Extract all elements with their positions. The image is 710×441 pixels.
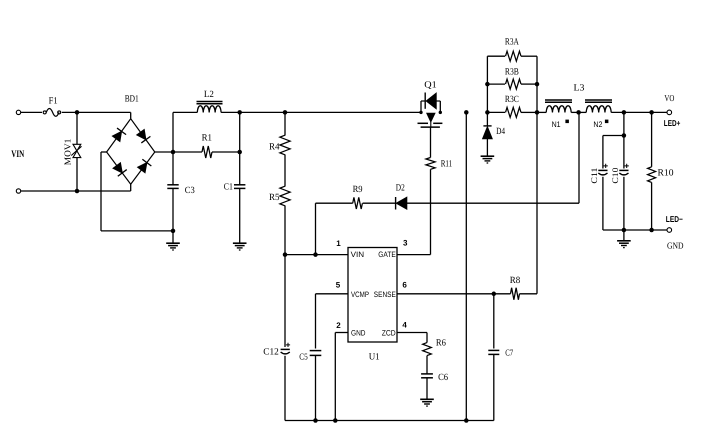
svg-text:L2: L2 — [204, 90, 214, 100]
capacitor C10 — [619, 164, 629, 175]
svg-text:BD1: BD1 — [125, 94, 139, 104]
wire — [521, 111, 537, 113]
svg-text:GATE: GATE — [378, 250, 396, 259]
diode BD1 top-left — [112, 128, 126, 141]
wire — [101, 151, 107, 153]
wire — [536, 56, 538, 294]
svg-text:C7: C7 — [505, 347, 513, 357]
wire — [221, 111, 421, 113]
svg-text:C3: C3 — [185, 186, 195, 196]
capacitor C5 — [310, 351, 322, 356]
op-amp U1 box — [348, 248, 397, 343]
wire — [172, 112, 174, 184]
node VIN terminal bottom — [16, 189, 20, 193]
wire — [397, 332, 427, 334]
resistor R11 — [426, 158, 435, 170]
junction — [485, 82, 490, 87]
svg-text:C10: C10 — [610, 168, 620, 184]
wire — [130, 112, 132, 118]
ground — [233, 243, 247, 250]
resistor R1 — [202, 146, 212, 158]
svg-text:3: 3 — [403, 239, 408, 248]
svg-text:R9: R9 — [353, 185, 363, 195]
diode BD1 top-right — [137, 130, 151, 143]
wire — [285, 420, 494, 422]
svg-text:R3C: R3C — [505, 95, 519, 105]
svg-text:6: 6 — [402, 280, 407, 289]
diode D2 — [396, 197, 407, 210]
wire — [486, 56, 488, 112]
polarity dot N2 — [605, 120, 609, 124]
ground — [481, 156, 495, 163]
wire — [284, 206, 286, 255]
wire — [430, 127, 432, 157]
svg-text:LED+: LED+ — [664, 118, 681, 128]
resistor R3A — [506, 51, 521, 61]
junction — [313, 252, 318, 257]
wire — [285, 254, 348, 256]
wire — [465, 112, 467, 420]
resistor R5 — [280, 186, 290, 206]
svg-text:C11: C11 — [589, 168, 599, 184]
wire — [363, 202, 396, 204]
wire — [284, 356, 286, 421]
svg-text:L3: L3 — [574, 83, 585, 93]
wire — [426, 378, 428, 399]
node VO terminal — [667, 110, 672, 115]
wire — [284, 255, 286, 347]
wire — [623, 136, 625, 169]
resistor R3B — [506, 79, 521, 89]
wire — [487, 83, 505, 85]
wire — [407, 202, 579, 204]
svg-text:R3A: R3A — [505, 38, 519, 48]
wire — [426, 356, 428, 374]
wire — [101, 230, 173, 232]
transistor Q1 — [418, 93, 443, 128]
capacitor C1 — [234, 185, 245, 189]
wire — [578, 112, 580, 203]
junction — [75, 110, 80, 115]
svg-text:N1: N1 — [552, 120, 561, 129]
wire — [239, 112, 241, 184]
svg-text:R3B: R3B — [505, 68, 519, 78]
svg-text:F1: F1 — [49, 96, 58, 106]
wire — [602, 136, 604, 169]
svg-text:R1: R1 — [202, 133, 213, 143]
junction — [283, 252, 288, 257]
wire — [173, 151, 202, 153]
diode BD1 bottom-left — [113, 163, 127, 176]
junction — [171, 229, 176, 234]
svg-text:R6: R6 — [436, 339, 446, 349]
wire — [76, 112, 78, 144]
svg-text:VCMP: VCMP — [351, 290, 369, 299]
capacitor C12 — [281, 343, 291, 354]
polarity dot N1 — [565, 120, 569, 124]
junction — [237, 110, 242, 115]
wire — [487, 111, 505, 113]
wire — [623, 230, 625, 241]
junction — [171, 150, 176, 155]
svg-text:MOV1: MOV1 — [63, 139, 73, 166]
wire — [486, 112, 488, 126]
wire — [487, 55, 505, 57]
ground — [420, 399, 434, 406]
wire — [623, 112, 625, 135]
junction — [237, 150, 242, 155]
wire — [316, 293, 349, 295]
junction — [464, 418, 469, 423]
wire — [21, 111, 43, 113]
wire — [62, 111, 131, 113]
junction — [649, 110, 654, 115]
node LED- terminal — [667, 228, 672, 233]
wire — [316, 202, 353, 204]
wire — [602, 177, 604, 230]
svg-text:R11: R11 — [441, 160, 453, 170]
svg-text:LED−: LED− — [666, 214, 683, 224]
resistor R10 — [648, 167, 656, 183]
wire — [130, 184, 132, 191]
wire — [315, 294, 317, 349]
wire — [430, 169, 432, 254]
svg-text:C12: C12 — [263, 347, 279, 357]
wire — [521, 83, 537, 85]
junction — [439, 111, 442, 114]
svg-text:ZCD: ZCD — [382, 328, 396, 337]
bridge rectifier BD1 — [107, 119, 155, 185]
inductor L3 winding N2 — [585, 100, 612, 112]
svg-text:5: 5 — [336, 280, 341, 289]
wire — [651, 182, 653, 230]
svg-text:N2: N2 — [593, 120, 602, 129]
wire — [284, 112, 286, 135]
wire — [486, 139, 488, 156]
svg-text:1: 1 — [336, 239, 341, 248]
wire — [173, 111, 197, 113]
junction — [333, 418, 338, 423]
svg-text:R5: R5 — [269, 193, 280, 203]
svg-text:VO: VO — [664, 93, 674, 103]
inductor L2 — [197, 102, 223, 113]
wire — [603, 135, 624, 137]
node VIN terminal top — [16, 110, 20, 114]
wire — [335, 332, 348, 334]
svg-text:VIN: VIN — [11, 149, 25, 160]
wire — [493, 294, 495, 349]
wire — [334, 333, 336, 421]
wire — [212, 151, 240, 153]
wire — [315, 355, 317, 420]
junction — [492, 292, 497, 297]
wire — [611, 111, 667, 113]
wire — [315, 203, 317, 254]
svg-text:C5: C5 — [299, 351, 308, 361]
capacitor C7 — [488, 350, 499, 354]
svg-text:D4: D4 — [496, 127, 505, 137]
wire — [284, 155, 286, 187]
diode BD1 bottom-right — [138, 159, 152, 172]
svg-text:GND: GND — [667, 241, 684, 251]
capacitor C6 — [421, 374, 433, 378]
svg-text:C6: C6 — [438, 373, 448, 383]
wire — [537, 111, 546, 113]
diode D4 — [483, 126, 493, 139]
svg-text:U1: U1 — [369, 352, 380, 362]
svg-text:SENSE: SENSE — [374, 290, 396, 299]
resistor R8 — [511, 288, 520, 300]
inductor L3 winding N1 — [545, 100, 572, 112]
junction — [535, 82, 540, 87]
junction — [485, 110, 490, 115]
wire — [426, 333, 428, 343]
junction — [622, 228, 627, 233]
wire — [397, 293, 511, 295]
capacitor C11 — [598, 164, 608, 175]
svg-text:R4: R4 — [269, 143, 280, 153]
wire — [493, 354, 495, 420]
junction — [622, 133, 627, 138]
junction — [649, 228, 654, 233]
ground — [617, 241, 631, 248]
svg-text:2: 2 — [336, 321, 341, 330]
svg-text:D2: D2 — [396, 183, 405, 193]
svg-text:R10: R10 — [658, 168, 674, 178]
svg-text:VIN: VIN — [351, 250, 365, 259]
wire — [239, 188, 241, 243]
resistor R6 — [423, 343, 432, 356]
capacitor C3 — [167, 185, 178, 189]
ground — [166, 243, 180, 250]
svg-text:GND: GND — [351, 328, 366, 337]
junction — [75, 189, 80, 194]
wire — [76, 158, 78, 191]
svg-text:4: 4 — [402, 320, 407, 329]
wire — [100, 152, 102, 231]
junction — [419, 111, 422, 114]
varistor MOV1 — [71, 144, 81, 157]
wire — [603, 229, 667, 231]
resistor R9 — [353, 197, 363, 209]
wire — [521, 55, 537, 57]
resistor R4 — [280, 135, 290, 155]
junction — [622, 110, 627, 115]
junction — [535, 110, 540, 115]
junction — [283, 110, 288, 115]
wire — [172, 231, 174, 243]
junction — [464, 110, 469, 115]
junction — [313, 418, 318, 423]
wire — [571, 111, 586, 113]
wire — [172, 188, 174, 231]
svg-text:C1: C1 — [224, 182, 233, 192]
junction — [576, 110, 581, 115]
wire — [651, 112, 653, 166]
svg-text:Q1: Q1 — [424, 80, 437, 90]
wire — [397, 254, 431, 256]
fuse F1 — [43, 109, 61, 117]
wire — [155, 151, 173, 153]
wire — [623, 177, 625, 230]
wire — [21, 190, 131, 192]
svg-text:R8: R8 — [510, 276, 521, 286]
wire — [520, 293, 538, 295]
resistor R3C — [506, 107, 521, 117]
